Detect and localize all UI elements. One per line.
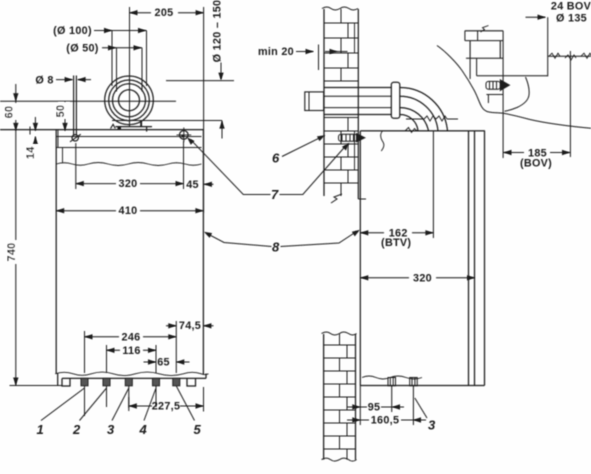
svg-text:8: 8 xyxy=(272,240,280,255)
svg-text:(BTV): (BTV) xyxy=(381,237,411,249)
svg-text:116: 116 xyxy=(122,345,140,357)
svg-text:1: 1 xyxy=(37,422,44,437)
svg-text:24 BOV: 24 BOV xyxy=(551,0,591,12)
svg-text:60: 60 xyxy=(4,106,16,119)
svg-text:(Ø 50): (Ø 50) xyxy=(66,43,99,55)
svg-text:740: 740 xyxy=(6,243,18,262)
svg-text:65: 65 xyxy=(157,357,170,369)
svg-text:Ø 8: Ø 8 xyxy=(35,75,53,87)
svg-text:(BOV): (BOV) xyxy=(520,158,552,170)
svg-text:6: 6 xyxy=(272,151,280,166)
svg-text:Ø 120 – 150: Ø 120 – 150 xyxy=(212,0,224,62)
svg-text:160,5: 160,5 xyxy=(371,414,400,426)
svg-text:320: 320 xyxy=(413,272,432,284)
svg-text:74,5: 74,5 xyxy=(179,320,201,332)
svg-text:50: 50 xyxy=(55,105,67,118)
svg-text:3: 3 xyxy=(428,418,436,433)
svg-text:45: 45 xyxy=(186,179,199,191)
svg-text:410: 410 xyxy=(119,205,138,217)
svg-text:2: 2 xyxy=(72,422,81,437)
svg-text:246: 246 xyxy=(122,331,141,343)
svg-text:14: 14 xyxy=(25,146,37,159)
svg-text:min 20: min 20 xyxy=(258,46,294,58)
svg-text:205: 205 xyxy=(155,7,174,19)
svg-text:7: 7 xyxy=(271,187,279,202)
svg-text:320: 320 xyxy=(119,178,138,190)
svg-text:95: 95 xyxy=(368,402,381,414)
svg-text:227,5: 227,5 xyxy=(152,401,181,413)
svg-text:Ø 135: Ø 135 xyxy=(556,12,587,24)
svg-text:4: 4 xyxy=(139,422,148,437)
svg-text:5: 5 xyxy=(194,422,202,437)
svg-text:(Ø 100): (Ø 100) xyxy=(53,25,92,37)
svg-text:3: 3 xyxy=(107,422,115,437)
